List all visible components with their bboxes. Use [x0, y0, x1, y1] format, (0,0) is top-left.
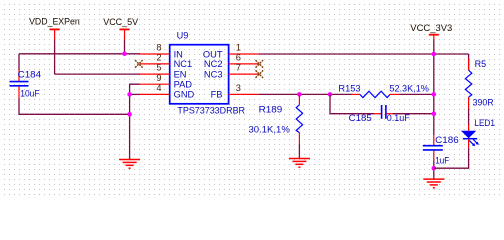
- svg-text:C186: C186: [435, 135, 459, 145]
- wire R153 right to column: [400, 93, 434, 95]
- svg-text:PAD: PAD: [174, 80, 193, 90]
- svg-text:R153: R153: [338, 84, 360, 94]
- svg-text:IN: IN: [174, 49, 183, 59]
- junction FB/C185 branch: [328, 92, 333, 97]
- svg-text:VCC_5V: VCC_5V: [103, 17, 139, 27]
- pin 4 GND stub: [140, 93, 170, 95]
- LED LED1: [461, 118, 495, 148]
- wire C184 bottom to ground column: [19, 99, 130, 115]
- wire C185 branch drop: [330, 94, 374, 113]
- capacitor C184: [10, 70, 42, 99]
- svg-text:FB: FB: [211, 90, 223, 100]
- wire R189 to ground: [298, 143, 300, 158]
- resistor R5: [465, 54, 493, 109]
- svg-text:2: 2: [156, 53, 161, 63]
- pin 1 OUT stub: [229, 53, 259, 55]
- svg-text:7: 7: [236, 63, 241, 73]
- svg-text:10uF: 10uF: [20, 89, 39, 99]
- wire IN net corner down to C184: [18, 54, 20, 70]
- wire IN net horizontal: [19, 53, 140, 55]
- no-ERC marker pin 6: [256, 60, 264, 68]
- wire R5 to LED1: [468, 109, 470, 124]
- junction R153/column: [432, 92, 437, 97]
- svg-text:OUT: OUT: [203, 49, 223, 59]
- svg-text:30.1K,1%: 30.1K,1%: [249, 124, 290, 134]
- pin 5 EN stub: [140, 73, 170, 75]
- svg-text:EN: EN: [174, 69, 187, 79]
- svg-text:NC3: NC3: [204, 69, 223, 79]
- ground (left, U9): [119, 160, 140, 169]
- wire OUT net horizontal: [259, 53, 469, 55]
- wire FB net horizontal: [259, 93, 352, 95]
- svg-text:VCC_3V3: VCC_3V3: [410, 23, 452, 33]
- wire EN net horizontal: [55, 73, 140, 75]
- wire LED1 to ground return: [434, 148, 469, 168]
- svg-text:3: 3: [236, 83, 241, 93]
- svg-text:NC2: NC2: [204, 59, 223, 69]
- svg-text:TPS73733DRBR: TPS73733DRBR: [177, 106, 245, 116]
- wire VCC_3V3 stem: [433, 40, 435, 54]
- svg-text:C184: C184: [18, 70, 41, 80]
- svg-text:GND: GND: [174, 90, 195, 100]
- svg-text:U9: U9: [177, 31, 189, 41]
- pin names: [174, 49, 223, 99]
- svg-text:9: 9: [156, 73, 161, 83]
- pin 6 NC2 stub: [229, 63, 259, 65]
- wire VCC_5V stem: [124, 40, 126, 54]
- resistor R153: [338, 84, 429, 98]
- svg-text:R5: R5: [475, 59, 487, 69]
- junction C185/column: [432, 111, 437, 116]
- junction FB/R189: [297, 92, 302, 97]
- svg-text:1uF: 1uF: [435, 156, 449, 166]
- wire PAD pin to ground column: [130, 84, 140, 159]
- pin numbers: [156, 43, 241, 93]
- pin 7 NC3 stub: [229, 73, 259, 75]
- power VCC_3V3: [410, 23, 452, 40]
- svg-text:5: 5: [156, 63, 161, 73]
- capacitor C185: [349, 105, 410, 123]
- wire VDD_EXPen stem: [54, 40, 56, 75]
- svg-text:VDD_EXPen: VDD_EXPen: [29, 17, 80, 27]
- wire VCC_3V3 column vertical: [433, 54, 435, 135]
- svg-text:1: 1: [236, 43, 241, 53]
- svg-text:6: 6: [236, 53, 241, 63]
- resistor R189: [249, 94, 303, 143]
- power VCC_5V: [103, 17, 139, 40]
- svg-text:52.3K,1%: 52.3K,1%: [389, 84, 429, 94]
- regulator U9 TPS73733DRBR: [140, 31, 259, 116]
- junction OUT/VCC_3V3: [432, 52, 437, 57]
- svg-text:LED1: LED1: [474, 118, 495, 128]
- svg-text:4: 4: [156, 83, 161, 93]
- wire C185 right to column: [393, 113, 434, 115]
- svg-text:0.1uF: 0.1uF: [387, 113, 410, 123]
- junction VCC_5V / IN: [122, 52, 127, 57]
- junction LED return: [432, 166, 437, 171]
- power VDD_EXPen: [29, 17, 80, 40]
- svg-text:NC1: NC1: [174, 59, 193, 69]
- pin 8 IN stub: [140, 53, 170, 55]
- capacitor C186: [423, 135, 459, 166]
- junction C184/ground column: [127, 112, 132, 117]
- ground (C186/LED): [423, 179, 444, 188]
- wire GND pin connect: [130, 93, 140, 95]
- no-ERC marker pin 2: [135, 60, 143, 68]
- junction PAD/GND column: [127, 92, 132, 97]
- no-ERC marker pin 7: [256, 70, 264, 78]
- ground (R189): [289, 159, 310, 168]
- svg-text:C185: C185: [349, 113, 372, 123]
- pin 9 PAD stub: [140, 83, 170, 85]
- pin 3 FB stub: [229, 93, 259, 95]
- pin 2 NC1 stub: [140, 63, 170, 65]
- svg-text:390R: 390R: [473, 98, 494, 108]
- wire C186 bottom to ground: [433, 161, 435, 180]
- svg-text:R189: R189: [259, 105, 283, 115]
- svg-text:8: 8: [156, 43, 161, 53]
